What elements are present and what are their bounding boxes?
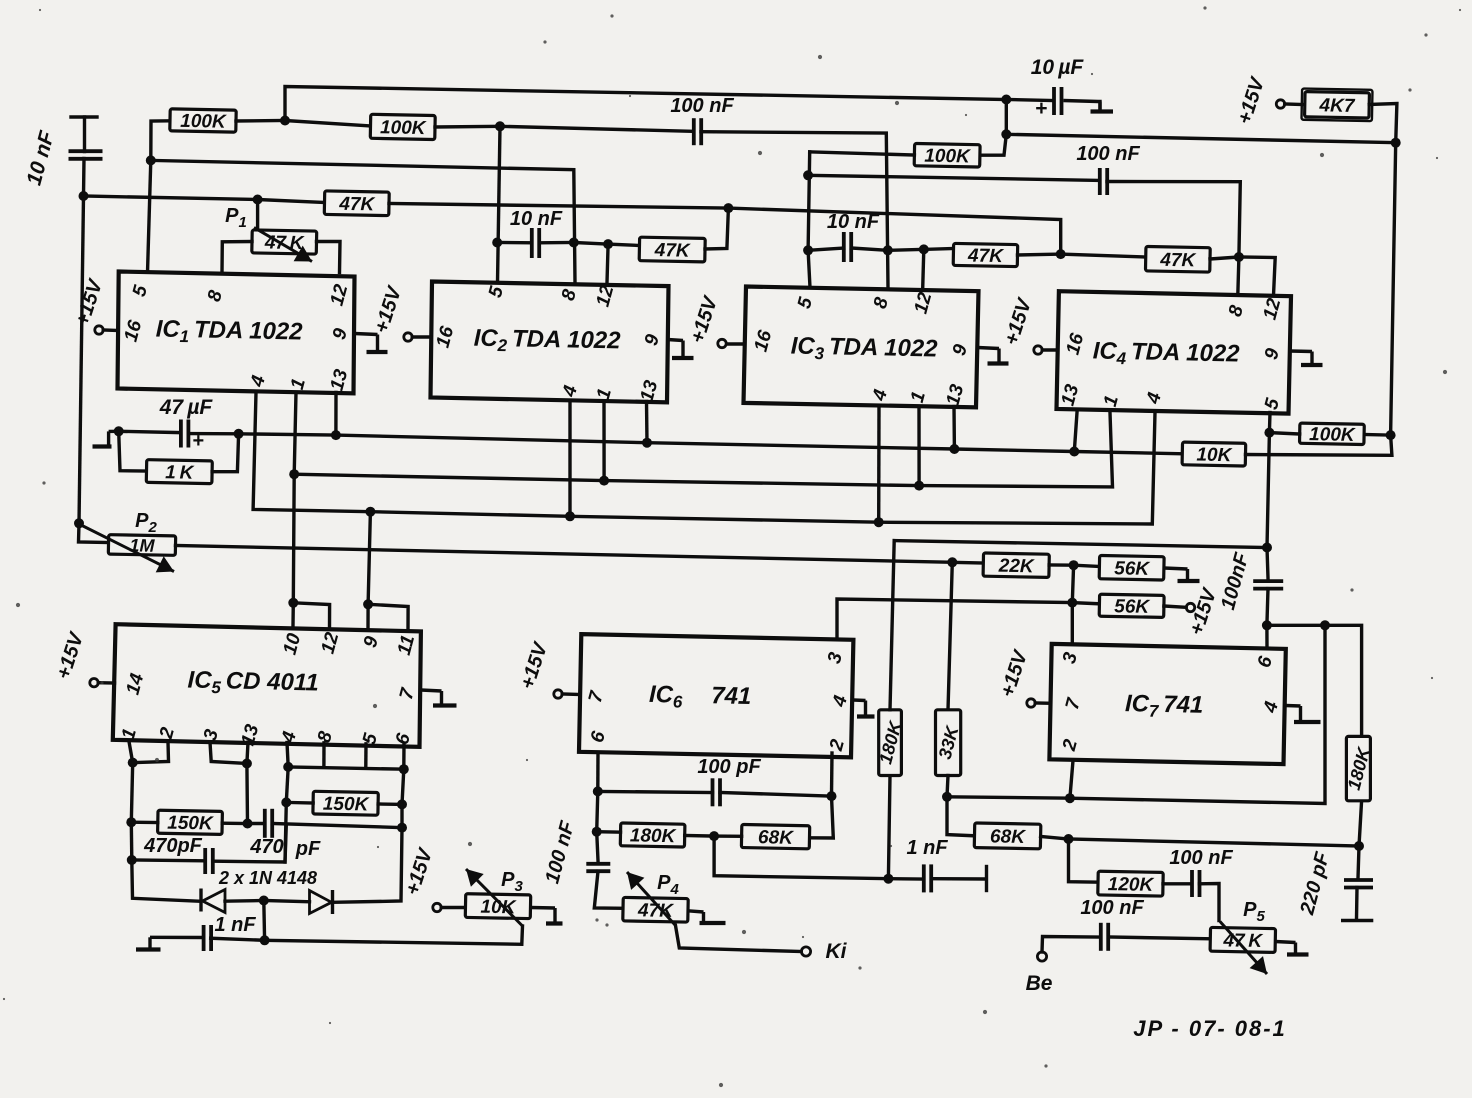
- junction IC2 pin5 node: [495, 121, 505, 131]
- capacitor 100nF (C7): [1192, 870, 1200, 897]
- terminal +15V IC4: [1034, 346, 1042, 354]
- junction 47K R7/R8 node: [1056, 249, 1066, 259]
- svg-text:10 nF: 10 nF: [827, 211, 880, 233]
- wire 47K R3 long row: [389, 204, 1061, 255]
- end bar of 1nF C14: [985, 867, 988, 891]
- ground at IC1 pin 9: [355, 334, 388, 353]
- wire 470pF C12 left lead: [248, 822, 265, 825]
- wire 100nF C6 to IC7 out node: [1267, 589, 1268, 626]
- svg-text:68K: 68K: [758, 827, 795, 849]
- wire IC4.5 node to 180K R22: [894, 541, 1267, 548]
- wire jog to IC5 pin 11: [368, 604, 408, 629]
- wire IC3.5 node to C5: [808, 248, 844, 250]
- wire junction to 100K R2: [285, 121, 371, 127]
- wire 150K R20 left lead: [286, 801, 313, 805]
- junction IC5 pin6 node: [399, 764, 409, 774]
- junction 47uF right node: [234, 429, 244, 439]
- wire C4 to IC2.8 node: [539, 241, 574, 245]
- wire node down to IC2 pin 12: [607, 244, 608, 282]
- end bar of 220pF: [1343, 919, 1372, 923]
- junction IC5 pin9 jog: [363, 599, 373, 609]
- wire IC2 pin 4 down: [568, 402, 571, 517]
- wire 1K left lead: [119, 431, 147, 471]
- junction 22K/56K node: [1069, 560, 1079, 570]
- svg-text:10K: 10K: [1196, 445, 1233, 467]
- terminal +15V IC7: [1027, 699, 1035, 707]
- wire 1nF C14 right lead: [933, 877, 985, 881]
- junction right rail top: [1391, 138, 1401, 148]
- junction top feedback node: [280, 116, 290, 126]
- svg-text:100 nF: 100 nF: [1076, 143, 1140, 165]
- wire node to 220pF node: [1069, 839, 1360, 846]
- svg-text:47K: 47K: [967, 245, 1005, 267]
- junction 1nF C14 node: [883, 874, 893, 884]
- wire IC5 pin 5 stub: [364, 744, 368, 767]
- wire feedback node to right rail: [1006, 134, 1395, 142]
- junction 33K bottom node: [942, 792, 952, 802]
- svg-text:47K: 47K: [654, 240, 692, 262]
- svg-text:IC7 741: IC7 741: [1125, 690, 1204, 722]
- wire +15V to P3: [441, 906, 465, 909]
- resistor 150K (R20): [313, 791, 378, 815]
- wire 100K R4 left lead: [810, 152, 915, 155]
- wire 180K R22 top lead: [890, 541, 894, 710]
- svg-text:47K: 47K: [1159, 250, 1197, 272]
- capacitor 100nF (C6): [1253, 581, 1283, 589]
- wire 100K R1 to junction: [236, 119, 285, 123]
- wire left rail down: [79, 196, 84, 523]
- wire IC4.5 node down: [1267, 433, 1269, 548]
- wire 100nF C2 to IC3 pin 8: [701, 132, 888, 288]
- wire node down: [130, 822, 134, 860]
- junction 150K R19 right node: [243, 819, 253, 829]
- wire 100K R5 to IC4 pin5 node: [1269, 433, 1299, 434]
- junction 470pF C11 left node: [127, 855, 137, 865]
- wire 47K R7 to node: [1018, 252, 1061, 256]
- wire pin13 row (row A): [239, 434, 1183, 454]
- wire IC5 pin 13 down: [247, 742, 248, 823]
- svg-text:100 nF: 100 nF: [1169, 847, 1233, 869]
- wire node to 100nF C6: [1267, 548, 1268, 579]
- svg-text:Ki: Ki: [826, 940, 848, 963]
- wire node to 56K R13: [1074, 565, 1100, 566]
- junction top node to 10uF: [1001, 95, 1011, 105]
- junction 33K top node: [947, 557, 957, 567]
- wire 150K R19 left lead: [131, 821, 158, 825]
- wire 180K R18 bottom lead: [1359, 801, 1362, 846]
- wire +15V to IC4 pin 16: [1042, 348, 1057, 351]
- resistor 180K (R22) vertical: [875, 710, 906, 776]
- capacitor 10nF (C4): [532, 228, 539, 258]
- wire node to IC7 pin2 node: [947, 797, 1070, 798]
- wire pin4 node down: [286, 767, 288, 803]
- wire IC5 pin 6 down: [402, 744, 406, 769]
- potentiometer P2 wiper arrow: [80, 525, 174, 573]
- ground at 56K R13: [1164, 568, 1200, 581]
- wire IC5 pin 1 down: [129, 742, 133, 763]
- wire IC5 pin 3 jog: [210, 742, 247, 763]
- junction IC3 pin12 node: [919, 244, 929, 254]
- potentiometer P5 body 47K: [1210, 927, 1275, 952]
- svg-text:68K: 68K: [990, 826, 1027, 848]
- terminal Ki: [801, 947, 810, 956]
- wire pin4 row (row C): [253, 393, 1155, 525]
- ground at IC2 pin 9: [668, 340, 694, 359]
- wire IC2.5 node to C4: [497, 241, 532, 245]
- wire pin6 node down to diode row: [334, 828, 402, 903]
- wire right rail down: [1391, 143, 1396, 435]
- svg-text:100K: 100K: [924, 146, 971, 168]
- wire IC6 pin 2 down: [830, 753, 834, 796]
- junction 10nF C5 right: [883, 245, 893, 255]
- wire +15V to IC1 pin 16: [103, 328, 118, 332]
- wire node to 47K R7: [924, 247, 954, 251]
- resistor 47K (R3): [324, 191, 389, 216]
- wire 1nF C14 left lead: [888, 877, 921, 881]
- svg-text:47 µF: 47 µF: [159, 396, 214, 419]
- wire pin6 node down: [597, 791, 598, 831]
- wire 56K R14 to +15V: [1164, 606, 1186, 607]
- junction 10nF C5 left: [803, 245, 813, 255]
- resistor 100K (R1): [170, 109, 236, 133]
- junction 150K R20 left node: [281, 797, 291, 807]
- wire to 47K R6 node: [574, 243, 608, 245]
- junction IC7 output node b: [1320, 620, 1330, 630]
- wire pin6 node to 100pF: [598, 791, 713, 792]
- wire +15V to IC6 pin 7: [562, 692, 580, 696]
- capacitor 10nF input (left edge): [69, 151, 103, 159]
- IC U7 (IC7 741): [1049, 644, 1285, 764]
- wire +15V to IC7 pin 7: [1035, 701, 1050, 705]
- IC U5 (IC5 CD 4011): [113, 624, 421, 748]
- wire branch down to IC5 pin 9: [368, 512, 370, 628]
- wire out node to IC7 pin 6: [1265, 625, 1268, 648]
- svg-text:100 nF: 100 nF: [1080, 897, 1144, 919]
- wire P1 wiper lead: [256, 200, 259, 232]
- IC U1 (IC1 TDA 1022): [118, 272, 355, 394]
- junction row A IC2 pin13: [642, 438, 652, 448]
- ground at IC6 pin 4: [853, 700, 874, 717]
- wire P4 wiper to Ki: [676, 926, 802, 952]
- junction 47K R8 right node: [1234, 252, 1244, 262]
- ground at 10uF: [1064, 101, 1114, 112]
- capacitor 100nF (C9): [1101, 923, 1108, 951]
- ground at P5: [1275, 942, 1308, 955]
- wire node to IC6 pin 3: [837, 599, 1072, 640]
- junction 180K R23 left node: [592, 827, 602, 837]
- wire pin1 node down: [131, 763, 132, 823]
- input terminal bar (top left): [71, 115, 97, 118]
- wire Be up to 100nF C9: [1042, 937, 1098, 953]
- wire 33K bottom lead: [947, 776, 948, 797]
- junction P1 wiper node: [253, 195, 263, 205]
- capacitor 1nF (C14): [924, 864, 931, 892]
- potentiometer P4 wiper arrow: [627, 872, 676, 926]
- wire node down to diode row: [132, 860, 200, 901]
- svg-text:120K: 120K: [1108, 874, 1155, 896]
- potentiometer P1 wiper arrow: [254, 228, 312, 262]
- svg-text:100K: 100K: [180, 111, 227, 133]
- junction 47uF left node: [114, 426, 124, 436]
- wire IC4 pin 5 down: [1268, 413, 1272, 433]
- resistor 33K (vertical): [935, 710, 963, 776]
- junction row C branch to IC5: [365, 507, 375, 517]
- wire 470pF C12 right lead: [272, 824, 402, 828]
- wire to IC3 pin12 node: [888, 248, 924, 252]
- svg-text:2 x 1N 4148: 2 x 1N 4148: [218, 868, 317, 888]
- wire IC5 pin 2 jog: [133, 742, 169, 763]
- capacitor 10nF (C5): [844, 232, 851, 262]
- IC U6 (IC6 741): [579, 634, 853, 757]
- wire pin2 node to feedback corner: [1070, 625, 1325, 803]
- wire node down to 1nF row: [714, 836, 888, 879]
- junction 47K row to 47K R6 lead: [723, 203, 733, 213]
- terminal Be: [1037, 952, 1046, 961]
- junction IC6 pin6 node: [593, 786, 603, 796]
- svg-text:56K: 56K: [1114, 596, 1151, 618]
- terminal +15V 4K7: [1276, 100, 1284, 108]
- ground at 1nF C13: [136, 937, 203, 949]
- wire 33K top lead: [948, 562, 952, 710]
- wire pin6 node down: [402, 769, 404, 804]
- junction 220pF node: [1354, 841, 1364, 851]
- ground at P3: [531, 908, 563, 924]
- wire 47K R8 right lead: [1210, 257, 1239, 259]
- wire 120K to 100nF C7: [1163, 882, 1190, 885]
- wire 100K R1 left lead: [151, 121, 170, 161]
- junction IC7 output node: [1262, 620, 1272, 630]
- wire node to 100nF C2: [500, 126, 691, 131]
- ground at IC5 pin 7: [421, 690, 457, 706]
- wire IC2 pin 1 down: [602, 402, 605, 481]
- IC U3 (IC3 TDA 1022): [744, 287, 979, 409]
- resistor 180K (R18) vertical: [1344, 736, 1375, 800]
- potentiometer P5 wiper arrow: [1220, 922, 1267, 975]
- svg-text:100K: 100K: [380, 117, 427, 139]
- wire 1nF C13 right lead: [211, 938, 265, 940]
- resistor 47K (R8): [1145, 246, 1210, 272]
- wire node to 47K R8: [1061, 254, 1146, 257]
- wire pin6 node down 2: [400, 804, 403, 827]
- svg-text:1 nF: 1 nF: [906, 837, 948, 859]
- wire IC5 pin 4 down: [287, 743, 288, 767]
- junction 180K R23 right node: [709, 831, 719, 841]
- junction row A IC4 pin13: [1069, 447, 1079, 457]
- wire 100K R2 to IC2 node: [435, 125, 500, 129]
- resistor 150K (R19): [158, 810, 223, 835]
- junction 1nF C13 right node: [260, 935, 270, 945]
- potentiometer P3 wiper arrow: [466, 869, 523, 926]
- junction row B IC2 pin1: [599, 476, 609, 486]
- wire pin1 row (row B): [294, 413, 1112, 487]
- ground at IC4 pin 9: [1290, 351, 1323, 365]
- wire node down crossing: [285, 802, 286, 862]
- junction row A IC3 pin13: [949, 444, 959, 454]
- svg-text:pF: pF: [295, 838, 321, 860]
- resistor 100K (R5): [1299, 423, 1364, 446]
- wire IC5 pin 8 stub: [322, 743, 326, 766]
- wire IC1 pin 13 down: [334, 393, 338, 436]
- junction right rail bottom: [1386, 430, 1396, 440]
- svg-text:22K: 22K: [998, 556, 1036, 578]
- svg-text:1 nF: 1 nF: [214, 914, 256, 936]
- resistor 68K (R16): [974, 823, 1041, 849]
- svg-text:150K: 150K: [323, 794, 370, 816]
- junction row C IC3 pin4: [874, 517, 884, 527]
- resistor 56K (R13): [1099, 555, 1164, 580]
- wire node down to IC3 pin 12: [923, 249, 924, 295]
- resistor 100K (R2): [370, 114, 435, 139]
- wire out node to 180K R18: [1267, 625, 1362, 736]
- potentiometer P4 body 47K: [623, 897, 688, 922]
- wire node down to IC2 pin 5: [498, 126, 501, 282]
- svg-text:100 nF: 100 nF: [670, 95, 734, 117]
- wire D1 to center node: [225, 899, 264, 903]
- wire 180K R23 right lead: [685, 834, 714, 838]
- terminal +15V IC1: [95, 326, 103, 334]
- wire 100nF C3 to 47K R8 node: [1107, 182, 1240, 258]
- terminal +15V IC5: [90, 679, 98, 687]
- svg-text:150K: 150K: [167, 813, 214, 835]
- wire IC4 pin 8 up to node: [1238, 257, 1239, 296]
- wire IC3 pin 13 down: [952, 407, 956, 450]
- wire 150K R19 right lead: [222, 822, 247, 826]
- junction row B IC1 pin1: [289, 469, 299, 479]
- potentiometer P1 body 47K: [252, 230, 317, 255]
- capacitor 220pF: [1344, 880, 1373, 888]
- wire IC7 pin 2 down: [1070, 761, 1073, 799]
- wire junction to 10uF cap: [1006, 100, 1052, 101]
- wire diode node down to 1nF row: [262, 901, 266, 941]
- wire to 47uF cap: [119, 431, 180, 432]
- wire rail node to 100K R5: [1364, 433, 1391, 437]
- wire node to 180K R23: [597, 830, 621, 834]
- junction 150K R19 left node: [126, 817, 136, 827]
- resistor 10K: [1182, 442, 1246, 466]
- capacitor 470pF (C12): [265, 809, 272, 838]
- wire node to 220pF cap: [1358, 846, 1359, 878]
- wire 33K node down to 68K R16: [947, 797, 975, 836]
- svg-text:10 nF: 10 nF: [510, 208, 563, 230]
- wire 220pF to end bar: [1355, 888, 1359, 920]
- wire vertical to IC3 pin 5: [808, 152, 810, 288]
- svg-text:1 K: 1 K: [165, 462, 195, 484]
- wire node to 56K R14: [1072, 603, 1099, 604]
- wire IC2 pin 13 down: [645, 402, 649, 443]
- resistor 4K7: [1302, 89, 1373, 122]
- svg-text:56K: 56K: [1114, 558, 1151, 580]
- resistor 47K (R7): [953, 243, 1018, 267]
- wire 1K right lead: [212, 434, 239, 472]
- resistor 22K: [983, 553, 1049, 578]
- diode D1 (1N4148): [201, 889, 225, 913]
- svg-text:10 µF: 10 µF: [1031, 56, 1085, 79]
- svg-text:470: 470: [249, 836, 283, 858]
- wire pin2 node to 68K R21: [810, 796, 834, 838]
- wire P1 right to IC1 pin 12: [317, 242, 341, 273]
- junction row B IC3 pin1: [914, 481, 924, 491]
- terminal +15V IC6: [554, 690, 562, 698]
- wire 1nF row to P3 wiper: [265, 926, 523, 944]
- wire node down to 100nF C8: [597, 832, 598, 861]
- wire 68K R16 right lead: [1041, 837, 1069, 840]
- junction diode center node: [259, 896, 269, 906]
- wire 47uF to node: [190, 432, 238, 436]
- wire 100nF C8 to P4: [594, 871, 623, 908]
- wire +15V to IC3 pin 16: [727, 342, 745, 345]
- junction 150K R20 right node: [397, 799, 407, 809]
- IC U4 (IC4 TDA 1022): [1057, 291, 1292, 413]
- junction IC2 pin12 node: [603, 239, 613, 249]
- junction IC4.5 node bottom: [1262, 543, 1272, 553]
- wire pin4 row to pin6 node: [288, 767, 404, 769]
- wire rail to 1M left: [79, 523, 109, 542]
- svg-text:+: +: [1035, 97, 1047, 120]
- junction IC4 pin5 node: [1264, 428, 1274, 438]
- ground at IC3 pin 9: [978, 348, 1009, 364]
- wire to 100nF C3: [808, 175, 1098, 180]
- junction 10nF C4 left: [492, 238, 502, 248]
- resistor 180K (R23): [620, 823, 685, 847]
- svg-text:Be: Be: [1026, 972, 1053, 995]
- resistor 1K: [146, 460, 212, 484]
- wire jog to IC5 pin 12: [293, 603, 329, 629]
- wire IC4 pin 13 down: [1074, 413, 1077, 452]
- wire node to 47K R6: [608, 244, 639, 245]
- capacitor 100nF (C2): [694, 118, 701, 145]
- wire C5 to IC3.8 node: [851, 248, 888, 250]
- svg-text:47K: 47K: [338, 194, 376, 216]
- wire 100nF C9 to P5: [1108, 937, 1210, 939]
- wire 1M to 22K long row: [176, 546, 953, 563]
- capacitor 470pF (C11): [205, 848, 213, 874]
- terminal +15V 56K: [1186, 603, 1194, 611]
- wire node down to IC7 pin3 node: [1072, 565, 1073, 602]
- junction IC5 pin4/8 node: [283, 762, 293, 772]
- capacitor 100pF: [713, 778, 721, 806]
- junction node A: [79, 191, 89, 201]
- junction row C IC2 pin4: [565, 511, 575, 521]
- wire center node to D2: [264, 901, 310, 902]
- wire 22K right lead: [1049, 563, 1074, 567]
- resistor 100K (R4): [914, 143, 980, 167]
- svg-text:180K: 180K: [630, 825, 677, 847]
- junction 10nF C4 right: [569, 238, 579, 248]
- potentiometer P3 body 10K: [465, 894, 530, 919]
- capacitor 10uF electrolytic: [1054, 87, 1062, 115]
- potentiometer P2 body 1M: [108, 535, 175, 556]
- wire node to IC1 pin 5: [148, 160, 151, 272]
- junction 470pF C12 right node: [397, 823, 407, 833]
- junction left rail P2 node: [74, 518, 84, 528]
- wire IC3 pin 1 down: [917, 407, 920, 486]
- wire node down to 120K: [1069, 839, 1099, 882]
- junction row A IC1 pin13: [331, 430, 341, 440]
- IC U2 (IC2 TDA 1022): [431, 282, 669, 405]
- wire input to 10nF cap: [83, 117, 86, 152]
- wire +15V to IC2 pin 16: [412, 335, 431, 338]
- capacitor 100nF (C3): [1100, 168, 1107, 195]
- wire terminal to 4K7: [1285, 102, 1302, 106]
- terminal +15V IC2: [404, 333, 412, 341]
- svg-text:4K7: 4K7: [1318, 95, 1356, 117]
- junction IC5 pin1/2 node: [128, 758, 138, 768]
- wire 4K7 to right rail: [1369, 104, 1397, 143]
- ground at 47uF: [93, 431, 119, 446]
- diode D2 (1N4148): [310, 890, 333, 914]
- wire 100nF C7 to P5 wiper: [1199, 884, 1219, 921]
- svg-text:100 pF: 100 pF: [697, 756, 761, 778]
